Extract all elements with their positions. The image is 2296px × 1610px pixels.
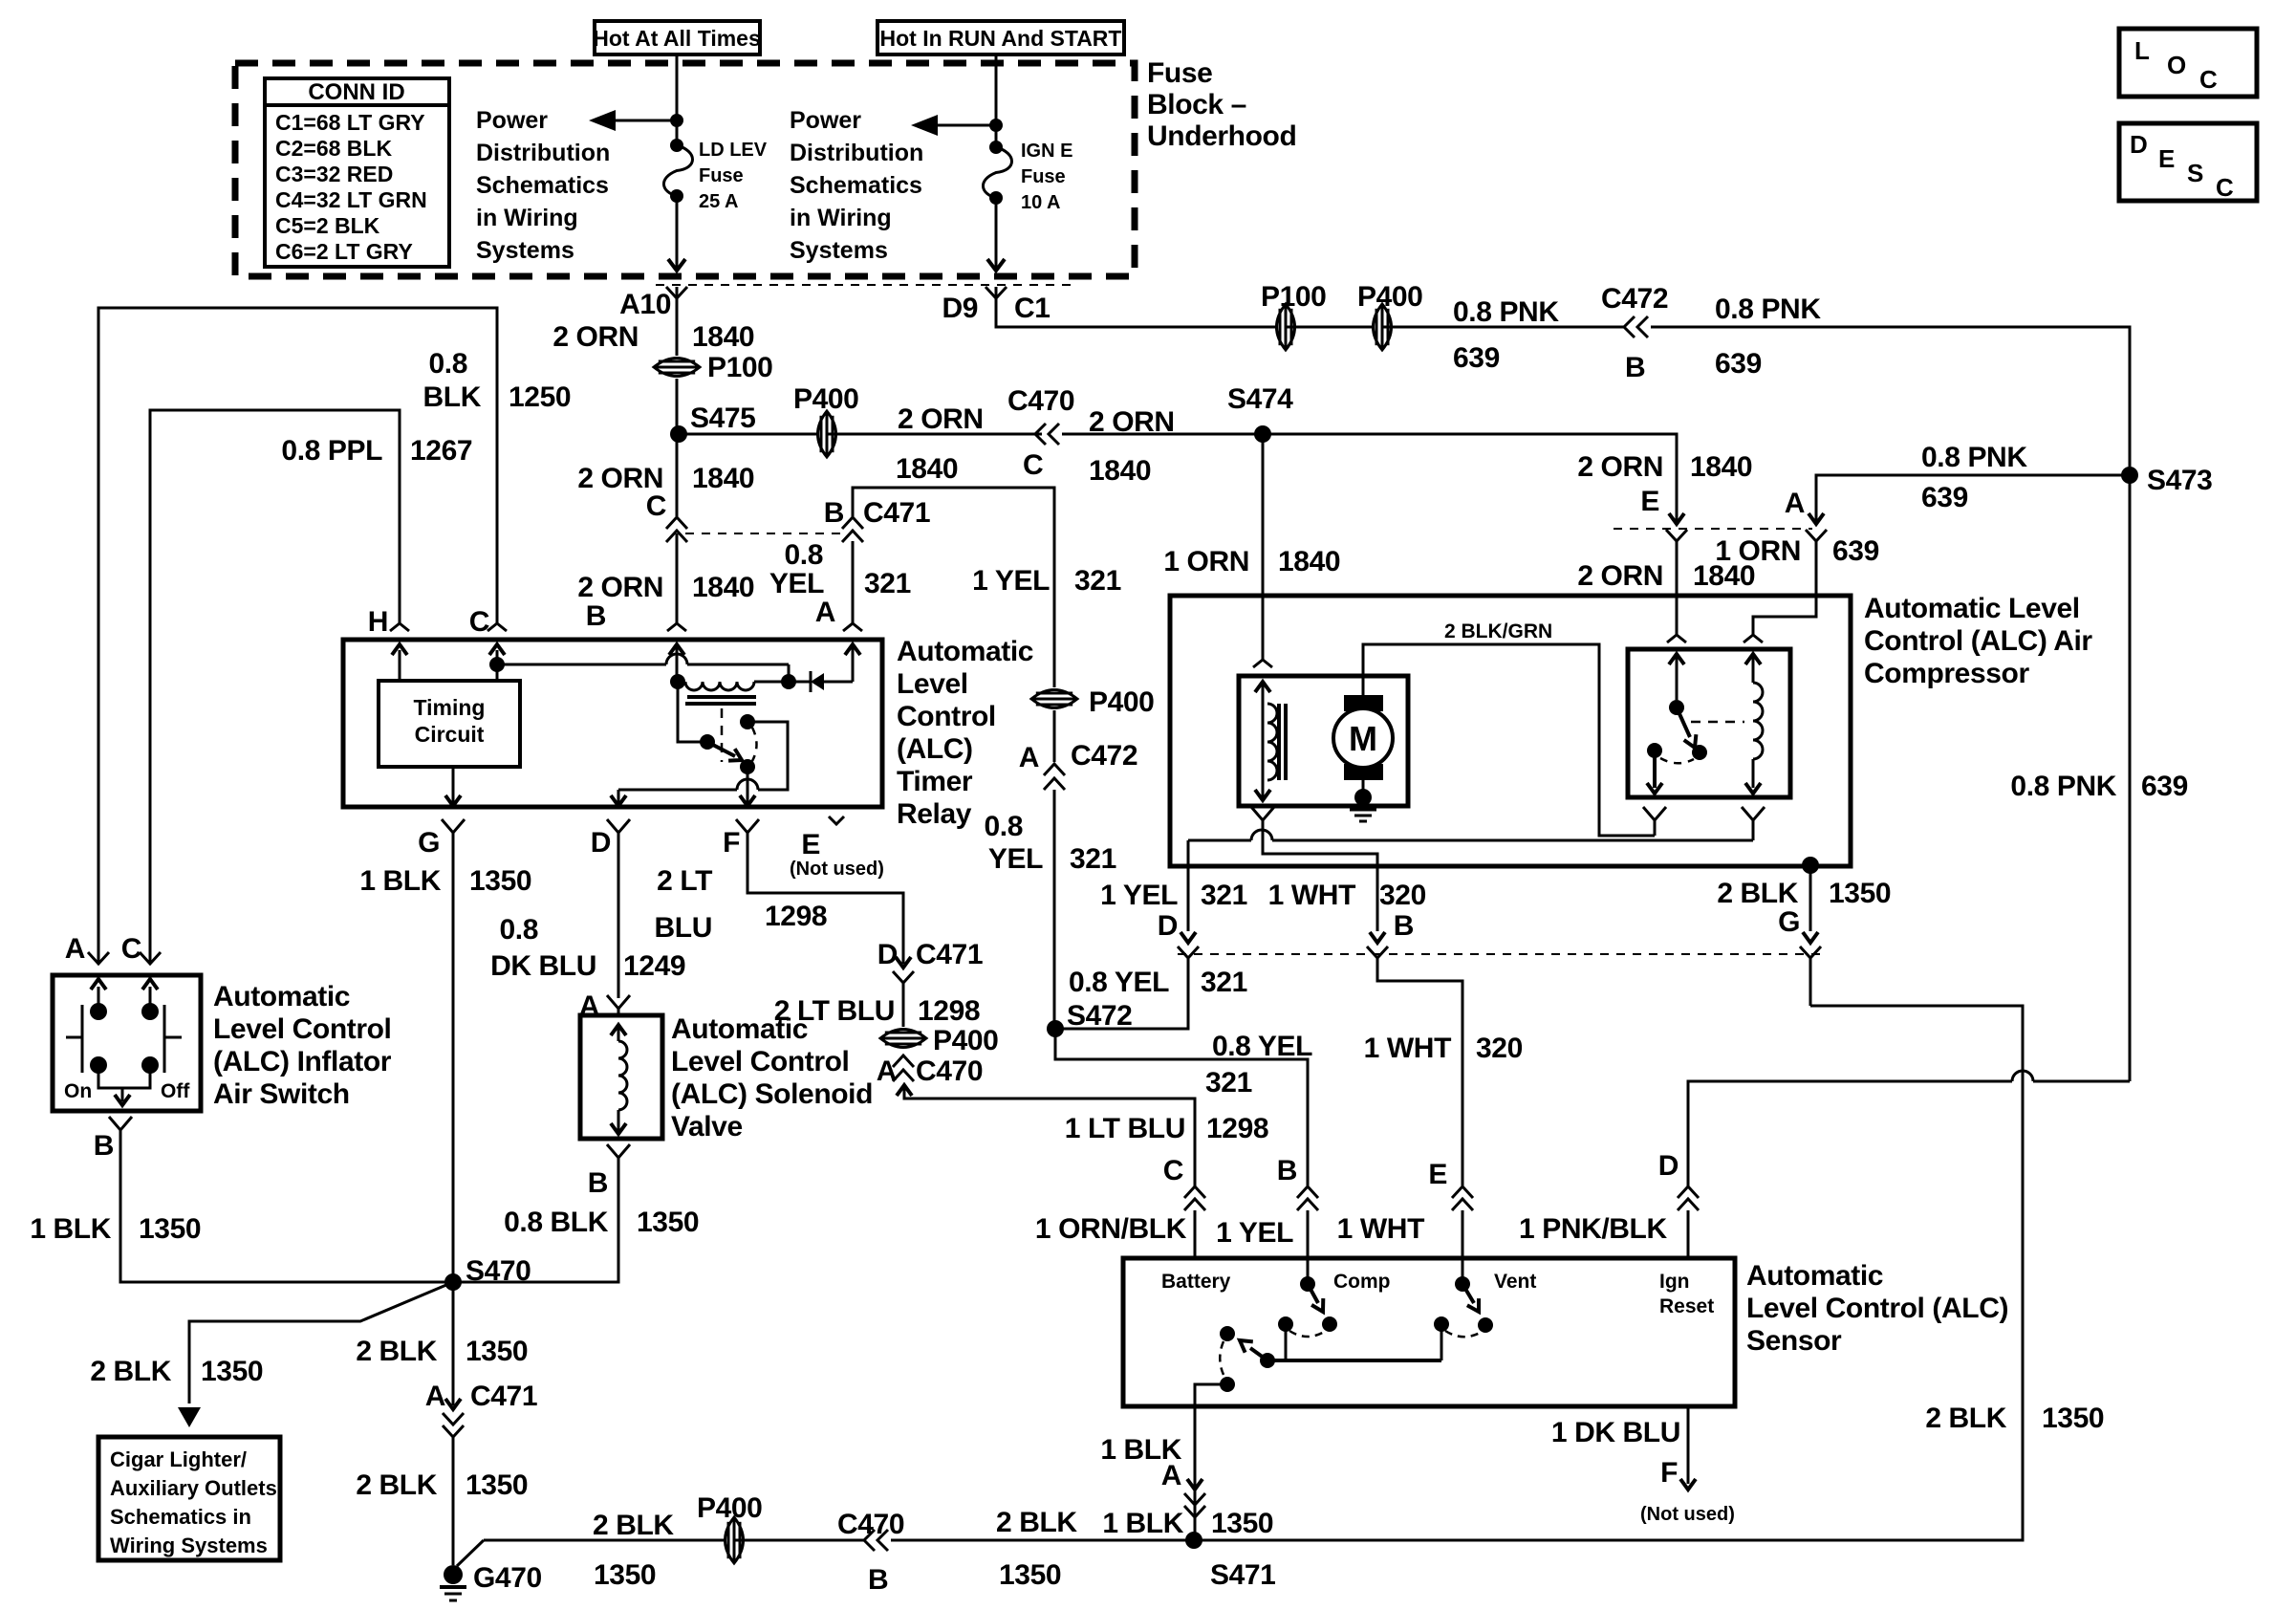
- svg-text:IGN E: IGN E: [1021, 141, 1072, 162]
- svg-text:C471: C471: [470, 1381, 537, 1412]
- relay armature arm (moving contact): [707, 742, 742, 761]
- wire: 2 BLK 1350 C470-B to splice S471: [891, 1539, 1194, 1542]
- svg-text:Control: Control: [897, 701, 996, 732]
- svg-text:2 BLK: 2 BLK: [996, 1507, 1077, 1538]
- svg-text:639: 639: [1715, 348, 1762, 380]
- compressor relay N.O. dot: [1692, 745, 1707, 760]
- label: Timing Circuit: [414, 695, 486, 747]
- svg-text:1298: 1298: [765, 901, 827, 932]
- sensor Battery feed: [1195, 1377, 1235, 1406]
- svg-text:D: D: [877, 939, 898, 970]
- svg-text:1 ORN: 1 ORN: [1163, 546, 1249, 577]
- svg-text:C: C: [2216, 173, 2234, 202]
- wire: 1 ORN 1840 from S474 down to compressor coil: [1262, 434, 1265, 660]
- compressor motor-winding chevron: [1253, 660, 1272, 667]
- wire: timer B pin to coil: [669, 644, 684, 682]
- svg-text:Comp: Comp: [1333, 1271, 1391, 1293]
- svg-text:G: G: [1778, 906, 1800, 938]
- connector face C471 (dashed): [685, 533, 841, 534]
- splice S474: [1254, 425, 1271, 443]
- wire: 2 LT BLU from C471-D to P400: [902, 983, 905, 1027]
- wire: 0.8 YEL 321 from C471-B up and over to C472 drop: [853, 488, 1054, 562]
- wire: 2 ORN 1840 from C470-C to S474: [1062, 433, 1263, 436]
- svg-text:C3=32 RED: C3=32 RED: [275, 162, 393, 186]
- connector C471 pin D: [877, 939, 983, 983]
- LOC reference box: [2119, 29, 2257, 97]
- compressor relay contact chevron (motor side): [1643, 807, 1666, 836]
- svg-text:0.8 PNK: 0.8 PNK: [2010, 771, 2116, 802]
- svg-text:1 ORN: 1 ORN: [1715, 535, 1801, 567]
- svg-text:S472: S472: [1067, 1000, 1132, 1032]
- switch C input arrow: [142, 979, 158, 1012]
- solenoid valve pin A chevron: [607, 995, 630, 1014]
- svg-text:E: E: [2158, 144, 2175, 173]
- svg-text:Schematics: Schematics: [790, 172, 922, 199]
- label box: Hot At All Times: [593, 21, 761, 54]
- svg-text:B: B: [868, 1564, 888, 1596]
- label: ALC Air Compressor: [1864, 593, 2092, 689]
- svg-text:(Not used): (Not used): [790, 859, 884, 880]
- connector C471 pin B (double chevron): [842, 517, 863, 542]
- label: ALC Sensor: [1746, 1260, 2008, 1357]
- svg-text:A: A: [815, 597, 835, 628]
- svg-text:0.8: 0.8: [428, 348, 467, 380]
- motor M top brush: [1344, 695, 1383, 711]
- svg-text:2 LT: 2 LT: [657, 865, 712, 897]
- svg-text:B: B: [588, 1167, 608, 1199]
- svg-text:Auxiliary Outlets: Auxiliary Outlets: [110, 1476, 277, 1500]
- svg-text:(ALC): (ALC): [897, 733, 973, 765]
- svg-text:B: B: [94, 1130, 114, 1162]
- wire: 1 WHT 320 compressor B to sensor E: [1377, 958, 1462, 1186]
- svg-text:0.8 PNK: 0.8 PNK: [1715, 294, 1821, 325]
- wire: coil common to armature pivot: [678, 682, 707, 742]
- svg-text:S: S: [2187, 159, 2203, 187]
- Automatic Level Control (ALC) Sensor box: [1123, 1258, 1735, 1406]
- svg-text:1250: 1250: [509, 381, 571, 413]
- compressor motor/winding inner box: [1239, 676, 1408, 806]
- svg-text:0.8: 0.8: [499, 914, 538, 946]
- svg-text:E: E: [801, 829, 820, 860]
- svg-text:1 BLK: 1 BLK: [30, 1213, 111, 1245]
- switch A contact dot: [90, 1003, 107, 1020]
- svg-text:Valve: Valve: [671, 1111, 743, 1142]
- svg-text:Power: Power: [476, 107, 548, 134]
- grommet P400 on bottom ground run: [726, 1517, 744, 1563]
- svg-text:1840: 1840: [1089, 455, 1151, 487]
- compressor top connector face (dashed): [1614, 528, 1812, 530]
- svg-text:C471: C471: [863, 497, 930, 529]
- svg-text:320: 320: [1379, 880, 1426, 911]
- compressor relay inner contact box: [1628, 649, 1790, 797]
- svg-text:D: D: [1158, 910, 1178, 942]
- svg-text:C: C: [646, 490, 666, 522]
- inflator switch pin A chevron: [65, 933, 109, 965]
- svg-text:Fuse: Fuse: [699, 165, 744, 186]
- compressor relay coil top lead: [1744, 635, 1763, 683]
- svg-text:1350: 1350: [2042, 1403, 2104, 1434]
- Automatic Level Control (ALC) Timer Relay box: [343, 640, 882, 807]
- svg-text:Hot At All Times: Hot At All Times: [593, 26, 761, 51]
- svg-text:C470: C470: [837, 1509, 904, 1540]
- wire: 2 BLK 1350 S470 to C471-A: [452, 1282, 455, 1405]
- svg-text:On: On: [64, 1080, 92, 1102]
- compressor winding plunger arrows: [1255, 682, 1270, 800]
- svg-text:P100: P100: [1261, 281, 1326, 313]
- svg-text:C: C: [2199, 65, 2218, 94]
- compressor relay coil bottom lead: [1742, 759, 1765, 840]
- junction dot on LD LEV feed: [670, 114, 683, 127]
- svg-text:0.8 PNK: 0.8 PNK: [1453, 296, 1559, 328]
- svg-text:Fuse: Fuse: [1021, 166, 1066, 187]
- Automatic Level Control (ALC) Inflator Air Switch box: [53, 975, 201, 1111]
- wire: 0.8 PNK 639 from C472-B to S473 drop: [1651, 327, 2130, 467]
- label: ALC Solenoid Valve: [671, 1013, 873, 1142]
- svg-text:(Not used): (Not used): [1640, 1504, 1735, 1525]
- svg-text:C472: C472: [1071, 740, 1137, 772]
- sensor Battery arm: [1240, 1340, 1267, 1360]
- svg-text:1 PNK/BLK: 1 PNK/BLK: [1519, 1213, 1667, 1245]
- svg-text:F: F: [1660, 1457, 1678, 1489]
- svg-text:Off: Off: [161, 1080, 190, 1102]
- junction dot on IGN E feed: [989, 119, 1003, 132]
- inflator switch pin C chevron: [121, 933, 161, 965]
- sensor pin C chevron: [1163, 1155, 1205, 1258]
- timer relay pin A chevron: [843, 623, 862, 631]
- splice S475: [670, 425, 687, 443]
- svg-text:C1: C1: [1014, 293, 1051, 324]
- svg-text:2 BLK: 2 BLK: [1717, 878, 1798, 909]
- wire: plunger winding to pin B: [1251, 807, 1377, 931]
- svg-text:Relay: Relay: [897, 798, 972, 830]
- compressor connector pin E (male/female): [1666, 513, 1687, 541]
- svg-text:E: E: [1428, 1159, 1447, 1190]
- svg-text:P400: P400: [793, 383, 858, 415]
- splice S471: [1185, 1532, 1202, 1549]
- svg-text:Underhood: Underhood: [1147, 120, 1296, 152]
- sensor pin D chevron: [1658, 1150, 1699, 1258]
- svg-text:B: B: [824, 497, 844, 529]
- relay coil core bars: [687, 695, 756, 699]
- svg-text:1249: 1249: [623, 950, 685, 982]
- switch C contact dot: [141, 1003, 159, 1020]
- label: Ign Reset: [1659, 1271, 1714, 1317]
- cigar feed arrowhead: [178, 1407, 201, 1427]
- svg-text:BLK: BLK: [423, 381, 482, 413]
- wire: 1 BLK 1350 from switch B to S470: [120, 1130, 453, 1282]
- sensor wiper bar: [1267, 1316, 1449, 1360]
- inflator switch pin B chevron: [94, 1117, 132, 1162]
- svg-text:Level Control: Level Control: [213, 1013, 392, 1045]
- svg-text:1 DK BLU: 1 DK BLU: [1551, 1417, 1680, 1448]
- wire: 0.8 YEL 321 compressor D to splice S472: [1055, 958, 1188, 1029]
- svg-text:1350: 1350: [201, 1356, 263, 1387]
- wire: 0.8 YEL 321 from C472-A to S472: [1053, 790, 1056, 1029]
- wire: 2 BLK 1350 from C471-A to ground G470: [452, 1437, 455, 1565]
- svg-text:Distribution: Distribution: [476, 140, 610, 166]
- svg-text:B: B: [1277, 1155, 1297, 1186]
- grommet P400 on S475 run: [818, 411, 836, 457]
- switch lower contact dots: [90, 1056, 107, 1074]
- svg-text:YEL: YEL: [988, 843, 1043, 875]
- svg-text:F: F: [723, 827, 740, 859]
- splice S472: [1047, 1020, 1064, 1037]
- wire: 0.8 BLK 1350 solenoid B to S470: [453, 1158, 618, 1282]
- svg-text:D: D: [1658, 1150, 1679, 1182]
- svg-text:G: G: [418, 827, 440, 859]
- svg-text:1840: 1840: [692, 572, 754, 603]
- relay coil junction dots: [670, 674, 685, 689]
- wire: circuit 1840 from A10 to P100: [676, 287, 679, 356]
- svg-text:L: L: [2134, 36, 2150, 65]
- label box: Hot In RUN And START: [877, 21, 1124, 54]
- svg-text:1350: 1350: [466, 1469, 528, 1501]
- svg-text:639: 639: [1832, 535, 1879, 567]
- grommet P400 on 2 LT BLU wire: [880, 1030, 926, 1048]
- timer relay pin C chevron: [487, 623, 507, 631]
- sensor pin E chevron: [1428, 1159, 1473, 1258]
- svg-text:1 LT BLU: 1 LT BLU: [1065, 1113, 1185, 1144]
- svg-text:S474: S474: [1227, 383, 1293, 415]
- svg-text:321: 321: [1201, 880, 1247, 911]
- wire: 0.8 PNK 639 branch from S473 to compressor A drop: [1816, 475, 2130, 524]
- Cigar Lighter note box: [98, 1437, 280, 1560]
- svg-text:639: 639: [2141, 771, 2188, 802]
- wire: 0.8 PPL 1267 inflator switch C to timer relay H: [150, 410, 400, 962]
- svg-text:S473: S473: [2147, 465, 2212, 496]
- compressor pin G connector: [1800, 932, 1821, 1006]
- svg-text:Compressor: Compressor: [1864, 658, 2029, 689]
- svg-text:0.8: 0.8: [984, 811, 1023, 842]
- label: Fuse Block - Underhood: [1147, 57, 1296, 152]
- relay coil winding: [685, 682, 754, 690]
- svg-text:YEL: YEL: [769, 568, 824, 599]
- connector C471 pin C (double chevron): [666, 517, 687, 542]
- grommet P400 on 1 YEL wire: [1031, 690, 1077, 708]
- svg-text:A: A: [1785, 488, 1805, 519]
- svg-text:321: 321: [864, 568, 911, 599]
- note: Power Distribution Schematics (left): [476, 107, 610, 264]
- timer pin D chevron: [591, 819, 630, 859]
- svg-text:C1=68 LT GRY: C1=68 LT GRY: [275, 110, 425, 135]
- compressor pin D connector: [1178, 932, 1199, 958]
- wire: bottom run P400 to C470-B: [734, 1539, 864, 1542]
- timer relay pin H chevron: [390, 623, 409, 631]
- sensor Vent switch: [1455, 1258, 1493, 1333]
- svg-text:Cigar Lighter/: Cigar Lighter/: [110, 1447, 247, 1471]
- svg-text:Automatic: Automatic: [1746, 1260, 1883, 1292]
- timer pin F chevron: [723, 819, 759, 859]
- svg-text:639: 639: [1921, 482, 1968, 513]
- svg-text:in Wiring: in Wiring: [476, 205, 578, 231]
- compressor relay fixed contact arrow: [1647, 743, 1662, 794]
- svg-text:Automatic Level: Automatic Level: [1864, 593, 2080, 624]
- svg-text:Air Switch: Air Switch: [213, 1078, 350, 1110]
- svg-text:D: D: [2130, 130, 2148, 159]
- svg-text:Power: Power: [790, 107, 861, 134]
- svg-text:A: A: [425, 1381, 445, 1412]
- relay armature pivot dot: [700, 734, 715, 750]
- connector C472 pin B (<< on wire): [1624, 316, 1635, 337]
- svg-text:in Wiring: in Wiring: [790, 205, 892, 231]
- svg-text:1840: 1840: [896, 453, 958, 485]
- wire: S474 run to compressor E drop: [1263, 434, 1677, 524]
- svg-text:1840: 1840: [1278, 546, 1340, 577]
- svg-text:1350: 1350: [466, 1336, 528, 1367]
- wire: battery feed from Hot At All Times to LD LEV fuse: [676, 54, 679, 143]
- connector pin A10: [619, 287, 687, 320]
- svg-text:O: O: [2167, 51, 2186, 79]
- wire: 1 ORN 639 from A connector into compressor: [1753, 541, 1816, 635]
- svg-text:Block –: Block –: [1147, 89, 1246, 120]
- svg-text:Sensor: Sensor: [1746, 1325, 1842, 1357]
- connector C470 pin A: [877, 1055, 983, 1087]
- wire: 2 ORN 1840 from P400 to C470-C: [827, 433, 1042, 436]
- svg-text:Circuit: Circuit: [415, 722, 485, 747]
- wire: IGN E fuse output to fuse block connector D9: [987, 198, 1005, 271]
- timer relay pin B chevron: [667, 623, 686, 631]
- svg-text:1 WHT: 1 WHT: [1337, 1213, 1424, 1245]
- svg-text:Level: Level: [897, 668, 968, 700]
- relay diode CR1: [789, 671, 853, 692]
- wire: N.C. contact to timer pin D (hops F wire): [611, 722, 788, 806]
- svg-text:639: 639: [1453, 342, 1500, 374]
- compressor ground dot on case: [1802, 857, 1819, 874]
- svg-text:2 ORN: 2 ORN: [898, 403, 984, 435]
- svg-text:Level Control: Level Control: [671, 1046, 850, 1077]
- DESC reference box: [2119, 123, 2257, 202]
- svg-text:A10: A10: [619, 289, 671, 320]
- connector C471 pin A: [425, 1381, 537, 1437]
- svg-text:321: 321: [1205, 1067, 1252, 1099]
- svg-text:0.8 BLK: 0.8 BLK: [504, 1207, 609, 1238]
- svg-text:B: B: [586, 600, 606, 632]
- compressor relay coil squiggle: [1753, 683, 1763, 759]
- svg-text:1 WHT: 1 WHT: [1364, 1033, 1451, 1064]
- wire: battery feed from Hot In RUN And START to IGN E fuse: [995, 54, 998, 145]
- sensor Comp switch: [1300, 1258, 1337, 1332]
- svg-text:LD LEV: LD LEV: [699, 140, 768, 161]
- wire: 1 PNK/BLK sensor D to S473 (hops ground run): [1688, 475, 2130, 1186]
- wire: 2 ORN 1840 from C471-C to timer relay pin B: [676, 533, 679, 623]
- CONN ID table: [265, 78, 449, 267]
- wire: 1 YEL 321 drop from C471-B run to P400: [1053, 488, 1056, 687]
- svg-text:Timing: Timing: [414, 695, 486, 720]
- connector pin D9 / C1: [942, 287, 1050, 324]
- wire: 0.8 PNK 639 from P400 to C472-B: [1382, 326, 1624, 329]
- svg-text:1 BLK: 1 BLK: [1102, 1508, 1183, 1539]
- svg-text:Distribution: Distribution: [790, 140, 923, 166]
- svg-text:2 ORN: 2 ORN: [552, 321, 639, 353]
- sensor pin A connector: [1184, 1479, 1205, 1517]
- svg-text:C: C: [469, 606, 489, 638]
- compressor relay dashed travel arc: [1660, 758, 1694, 763]
- svg-text:C4=32 LT GRN: C4=32 LT GRN: [275, 187, 427, 212]
- grommet P100 on vertical 1840 wire: [654, 359, 700, 377]
- svg-text:1350: 1350: [999, 1559, 1061, 1591]
- svg-text:1 YEL: 1 YEL: [1216, 1217, 1293, 1249]
- grommet P100 on horizontal pink wire: [1277, 304, 1295, 350]
- relay actuation dashed link: [721, 708, 724, 762]
- sensor Battery contact dot: [1220, 1326, 1235, 1341]
- svg-text:C: C: [1023, 449, 1043, 481]
- motor M bottom brush: [1344, 764, 1383, 780]
- svg-text:P400: P400: [697, 1492, 762, 1524]
- wire: LD LEV fuse output to fuse block connector A10: [668, 196, 685, 271]
- ground G470: [444, 1565, 463, 1584]
- wire: S475 run to S474 with P400 and C470: [679, 433, 827, 436]
- fuse IGN E 10 A: [989, 141, 1003, 154]
- wire: 2 BLK/GRN motor to relay contact: [1363, 644, 1655, 836]
- svg-text:2 ORN: 2 ORN: [1577, 451, 1663, 483]
- solenoid valve coil: [611, 1025, 627, 1134]
- svg-text:321: 321: [1070, 843, 1116, 875]
- svg-text:2 BLK: 2 BLK: [356, 1469, 437, 1501]
- svg-text:1298: 1298: [1206, 1113, 1268, 1144]
- svg-text:1 BLK: 1 BLK: [359, 865, 441, 897]
- wire: 1840 from P100 to splice S475: [676, 379, 679, 434]
- svg-text:Systems: Systems: [476, 237, 574, 264]
- svg-text:1 ORN/BLK: 1 ORN/BLK: [1035, 1213, 1187, 1245]
- compressor relay dashed link to coil: [1691, 721, 1744, 724]
- fuse block connector face (dashed): [656, 284, 1071, 286]
- svg-text:Vent: Vent: [1494, 1271, 1536, 1293]
- wire: ground bus to bottom run: [457, 1540, 734, 1566]
- relay N.C. dashed travel arc: [752, 728, 757, 761]
- compressor winding coil squiggle: [1267, 704, 1277, 780]
- wire: 2 LT BLU 1298 timer F to C471-D: [747, 833, 903, 964]
- svg-text:Automatic: Automatic: [897, 636, 1033, 667]
- sensor wiper bar dots: [1260, 1353, 1275, 1368]
- compressor relay pivot dot: [1669, 700, 1684, 715]
- label: ALC Inflator Air Switch: [213, 981, 392, 1110]
- svg-text:1350: 1350: [1211, 1508, 1273, 1539]
- svg-text:0.8 YEL: 0.8 YEL: [1069, 967, 1169, 998]
- svg-text:0.8 PNK: 0.8 PNK: [1921, 442, 2027, 473]
- svg-text:1840: 1840: [1690, 451, 1752, 483]
- label: LD LEV Fuse 25 A: [699, 140, 768, 212]
- svg-text:Automatic: Automatic: [213, 981, 350, 1012]
- Timing Circuit box: [379, 681, 520, 767]
- sensor Comp dashed arc: [1289, 1331, 1326, 1337]
- wire: 2 ORN 1840 down from S475 to connector C471 pin C: [676, 434, 679, 516]
- relay N.C. contact dot: [740, 714, 755, 729]
- svg-text:Schematics: Schematics: [476, 172, 609, 199]
- svg-text:DK BLU: DK BLU: [490, 950, 596, 982]
- svg-text:1840: 1840: [692, 321, 754, 353]
- svg-text:1350: 1350: [637, 1207, 699, 1238]
- svg-text:2 BLK/GRN: 2 BLK/GRN: [1444, 620, 1552, 642]
- motor case ground: [1350, 780, 1376, 821]
- svg-text:(ALC) Inflator: (ALC) Inflator: [213, 1046, 392, 1077]
- svg-text:1 YEL: 1 YEL: [972, 565, 1050, 597]
- svg-text:C471: C471: [916, 939, 983, 970]
- svg-text:Timer: Timer: [897, 766, 973, 797]
- timing circuit arrow to pin H: [392, 644, 407, 681]
- svg-text:1840: 1840: [692, 463, 754, 494]
- relay N.O. contact dot: [740, 759, 755, 774]
- compressor relay arm: [1677, 707, 1696, 748]
- svg-text:1350: 1350: [594, 1559, 656, 1591]
- compressor relay common input arrow: [1667, 635, 1686, 700]
- wire: 0.8 DK BLU 1249 timer D to solenoid valve A: [617, 833, 620, 998]
- label: IGN E Fuse 10 A: [1021, 141, 1072, 213]
- svg-text:C5=2 BLK: C5=2 BLK: [275, 213, 380, 238]
- svg-text:Systems: Systems: [790, 237, 888, 264]
- wire: timing circuit to relay coil (hops B wire): [497, 654, 789, 677]
- svg-text:321: 321: [1074, 565, 1121, 597]
- timing circuit arrow to pin C: [489, 644, 505, 681]
